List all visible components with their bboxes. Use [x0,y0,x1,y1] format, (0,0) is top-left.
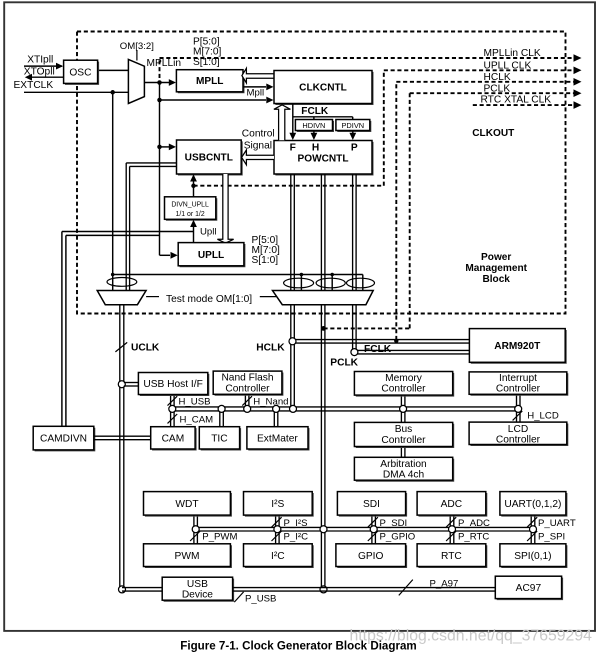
output arrow HCLK [574,78,582,86]
wire MPLLin to USBCNTL [160,146,170,148]
node MPLLin to USBCNTL tap [157,145,162,150]
svg-text:1/1 or 1/2: 1/1 or 1/2 [176,211,205,218]
svg-text:S[1:0]: S[1:0] [193,57,220,68]
block CAM [152,428,196,450]
node UCLK to USB device [119,586,126,593]
wire MPLLin CLK dashed route [159,58,161,78]
wire PDIVN to POWCNTL [352,131,354,134]
svg-text:Controller: Controller [496,384,541,395]
svg-text:Upll: Upll [200,226,217,237]
hollow arrow CLKCNTL to MPLL [242,68,274,83]
slash P_GPIO [368,531,378,541]
wire H column [320,174,322,291]
wire peripheral column 3 upper [371,515,373,527]
block AC97 [497,578,563,600]
wire PCLK dashed route [324,327,410,329]
svg-text:RTC XTAL CLK: RTC XTAL CLK [481,95,552,106]
wire MPLLin tap to CAMDIVN [66,234,160,236]
svg-text:XTOpll: XTOpll [24,67,55,78]
divider PDIVN [337,121,371,132]
svg-text:MPLLin: MPLLin [147,58,182,69]
wire peripheral column 5 lower [530,531,532,544]
svg-text:TIC: TIC [211,433,227,444]
svg-text:USB Host I/F: USB Host I/F [143,379,202,390]
wire PCLK column below mux [320,305,322,590]
node UCLK to USB host [118,381,125,388]
svg-text:H_Nand: H_Nand [253,396,288,407]
svg-text:Interrupt: Interrupt [499,373,537,384]
svg-text:P_ADC: P_ADC [458,518,490,529]
cpu ARM920T [471,330,566,363]
wire FCLK column below mux [352,305,354,353]
wire OM mux output MPLLin [144,82,169,84]
block ExtMater [248,428,309,450]
svg-text:FCLK: FCLK [301,106,329,117]
wire bus to LCDCtrl [516,411,518,422]
node bus HCLK column [290,405,297,412]
controller Interrupt [471,373,568,395]
block I2C [245,545,313,567]
node bus MemCtrl [400,405,407,412]
pll MPLL [178,71,244,93]
wire EXTCLK input [24,91,128,93]
svg-text:P_A97: P_A97 [430,579,459,590]
wire test clock line [113,274,363,276]
wire F column [290,174,292,291]
svg-text:DIVN_UPLL: DIVN_UPLL [171,202,209,209]
svg-text:H: H [312,142,319,153]
block SPI [501,545,567,567]
svg-text:P_SDI: P_SDI [380,518,408,529]
svg-text:P: P [351,142,358,153]
divider DIVN_UPLL [166,198,217,220]
block RTC [419,545,487,567]
wire peripheral column 5 upper [530,515,532,527]
block SDI [339,493,407,516]
svg-text:Memory: Memory [385,373,423,384]
node PCLK bus WDT [192,526,199,533]
block WDT [145,493,232,516]
slash P_PWM [190,531,200,541]
wire HCLK to ARM920T [293,339,470,341]
wire FCLK from CLKCNTL [292,104,294,134]
wire Mpll to CLKCNTL [243,86,266,88]
block ADC [419,493,487,516]
wire UPLL CLK dashed route [194,185,384,187]
mux OM[3:2] [128,59,144,103]
svg-text:I²C: I²C [271,551,285,562]
svg-text:HCLK: HCLK [256,342,285,353]
node bus TIC [218,405,225,412]
wire peripheral column 1 lower [193,531,195,544]
svg-text:UPLL CLK: UPLL CLK [484,61,532,72]
wire P column [352,174,354,291]
svg-text:Controller: Controller [381,435,426,446]
svg-text:RTC: RTC [441,551,462,562]
wire MemCtrl to bus [400,395,402,407]
svg-text:CLKOUT: CLKOUT [472,128,515,139]
svg-text:WDT: WDT [175,499,198,510]
label Test mode OM[1:0] [146,296,159,298]
wire peripheral column 2 upper [275,515,277,527]
block TIC [201,428,241,450]
wire UCLK from USBCNTL [126,162,176,164]
svg-text:PCLK: PCLK [484,83,511,94]
svg-text:HDIVN: HDIVN [302,121,325,130]
svg-text:Figure 7-1. Clock Generator Bl: Figure 7-1. Clock Generator Block Diagra… [180,640,416,653]
wire bus to BusCtrl [400,411,402,423]
wire USB Host IF to bus [170,395,172,407]
ellipse left test bundle [107,278,137,287]
oscillator OSC [65,62,99,85]
slash P_I2C [272,531,282,541]
wire UCLK rail [119,305,121,590]
svg-text:SDI: SDI [363,499,380,510]
slash H_USB [168,396,178,405]
svg-text:EXTCLK: EXTCLK [14,80,54,91]
slash P_SPI [527,531,537,541]
svg-text:P_I²C: P_I²C [284,532,309,543]
output arrow MPLLin CLK [574,54,582,62]
node PCLK bus ADC [449,526,456,533]
svg-text:P_RTC: P_RTC [458,532,489,543]
wire peripheral column 2 lower [275,531,277,544]
slash H_Nand [242,396,252,405]
block Arbitration DMA [356,459,454,482]
node EXTCLK junction [110,90,115,95]
wire bus to ExtMater [273,411,275,427]
node test tap 1 [300,273,304,277]
svg-text:AC97: AC97 [516,583,542,594]
divider CAMDIVN [35,428,95,451]
svg-text:Arbitration: Arbitration [380,459,426,470]
block I2S [245,493,313,516]
wire MPLLin to CLKCNTL [160,99,267,101]
wire XTIpll input [24,65,62,67]
wire peripheral column 1 upper [193,515,195,527]
controller LCD [471,424,568,446]
wire RTC XTAL CLK dashed route [473,104,575,106]
wire NandFlash to bus [244,394,246,407]
pll UPLL [180,244,245,267]
slash P_A97 [399,580,413,596]
svg-text:ExtMater: ExtMater [257,433,298,444]
controller USBCNTL [178,141,242,175]
wire CAMDIVN to CAM [94,435,151,437]
controller Bus [356,424,454,448]
svg-text:Mpll: Mpll [247,87,265,98]
wire peripheral column 3 lower [371,531,373,544]
wire bus to CAM [170,411,172,427]
wire BusCtrl to Arbitration [400,447,402,458]
svg-text:Controller: Controller [225,383,270,394]
node HCLK branch [289,338,296,345]
wire peripheral column 4 lower [449,531,451,544]
wire XTOpll output [32,76,64,78]
wire peripheral column 4 upper [449,515,451,527]
wire bus to TIC [219,411,221,427]
svg-text:P_SPI: P_SPI [538,532,565,543]
ellipse right test bundle 2 [316,278,345,288]
wire OSC to OM mux [98,69,129,71]
block GPIO [337,545,406,567]
svg-text:PWM: PWM [175,551,200,562]
svg-text:Bus: Bus [395,424,413,435]
wire IntCtrl to bus [516,394,518,407]
ellipse right test bundle 3 [347,278,375,288]
svg-text:POWCNTL: POWCNTL [297,154,348,165]
svg-text:LCD: LCD [508,424,528,435]
svg-text:Control: Control [242,129,275,140]
mux left test mode [97,291,146,305]
wire FCLK to ARM920T [354,349,469,351]
svg-text:PDIVN: PDIVN [342,121,365,130]
controller USB Host IF [140,374,209,396]
output arrow PCLK [574,89,582,97]
slash H_LCD [513,411,523,420]
svg-text:P_USB: P_USB [245,594,276,605]
controller POWCNTL [275,142,373,175]
node PCLK bus spine [320,526,327,533]
controller Nand Flash [215,373,283,396]
hollow arrow POWCNTL to CLKCNTL [274,105,291,140]
node FCLK branch [351,349,358,356]
node bus USB host [169,405,176,412]
svg-text:Signal: Signal [244,141,272,152]
svg-text:Controller: Controller [381,384,426,395]
svg-text:Test mode OM[1:0]: Test mode OM[1:0] [166,294,252,305]
svg-text:HCLK: HCLK [484,72,511,83]
slash P_SDI [368,517,378,527]
node bus ExtMater [273,405,280,412]
controller CLKCNTL [275,72,373,105]
svg-text:Nand Flash: Nand Flash [221,373,273,384]
slash P_UART [527,517,537,527]
node test line start [111,273,115,277]
node PCLK bus I2S [274,526,281,533]
svg-text:MPLL: MPLL [196,76,223,87]
svg-text:P_I²S: P_I²S [284,518,308,529]
output arrow RTC XTAL CLK [574,101,582,109]
svg-text:F: F [290,142,296,153]
slash H_CAM [168,414,178,423]
node bus IntCtrl [515,405,522,412]
ellipse right test bundle 1 [284,278,314,288]
divider HDIVN [297,121,334,132]
svg-text:Management: Management [465,263,527,274]
svg-text:Power: Power [481,252,511,263]
slash UCLK [115,342,127,352]
svg-text:UCLK: UCLK [131,342,160,353]
node MPLLin to CLKCNTL tap [157,98,162,103]
wire Upll to DIVN_UPLL [193,226,195,243]
svg-text:USB: USB [187,579,208,590]
svg-text:S[1:0]: S[1:0] [252,255,279,266]
bus PCLK [196,526,533,528]
node UPLL CLK tap [191,184,196,189]
svg-text:USBCNTL: USBCNTL [185,152,233,163]
svg-text:XTIpll: XTIpll [27,54,53,65]
node PCLK to AC97 line [320,586,327,593]
wire Upll tap to CAMDIVN [62,231,194,233]
svg-text:CAM: CAM [162,433,185,444]
label OM[3:2] [136,51,138,61]
svg-text:GPIO: GPIO [358,551,384,562]
node PCLK bus SDI [370,526,377,533]
svg-text:SPI(0,1): SPI(0,1) [514,551,551,562]
wire EXTCLK down to test mux [112,92,114,290]
svg-text:Device: Device [182,589,213,600]
node bus Nand [244,405,251,412]
controller Memory [356,373,454,396]
svg-text:PCLK: PCLK [330,358,358,369]
svg-text:H_LCD: H_LCD [527,410,559,421]
node PCLK bus UART [530,526,537,533]
wire UCLK to USB Host IF [124,382,139,384]
slash P_I2S [272,517,282,527]
svg-text:OM[3:2]: OM[3:2] [120,41,154,52]
svg-text:DMA 4ch: DMA 4ch [383,470,424,481]
svg-text:H_CAM: H_CAM [180,415,214,426]
wire USBCNTL to DIVN_UPLL rail [193,181,195,197]
node test tap 2 [330,273,334,277]
bus HCLK [172,406,518,408]
block USB Device [164,579,234,602]
svg-text:P_PWM: P_PWM [202,532,237,543]
svg-text:OSC: OSC [69,67,91,78]
clock generator module dashed boundary [77,32,566,314]
block PWM [145,545,232,567]
svg-text:CAMDIVN: CAMDIVN [40,434,87,445]
svg-text:ARM920T: ARM920T [494,341,541,352]
svg-text:Block: Block [482,274,510,285]
svg-text:P_UART: P_UART [538,518,576,529]
svg-text:UPLL: UPLL [198,250,224,261]
hollow arrow POWCNTL to USBCNTL [242,150,274,165]
node PCLK dashed tap [321,326,326,331]
output arrow UPLL CLK [574,67,582,75]
svg-text:Controller: Controller [496,435,541,446]
node MPLLin [157,80,162,85]
hollow arrow USBCNTL to UPLL [217,174,233,243]
svg-text:M[7:0]: M[7:0] [193,47,221,58]
wire HCLK dashed route [395,82,397,340]
svg-text:ADC: ADC [441,499,463,510]
svg-text:P_GPIO: P_GPIO [380,532,416,543]
wire UCLK to USB Device [122,587,162,589]
wire HDIVN to POWCNTL [313,131,315,134]
wire MPLLin vertical rail [159,83,161,256]
slash P_ADC [446,517,456,527]
slash P_RTC [446,531,456,541]
wire FCLK branch to dividers [293,116,353,118]
node HCLK dashed tap [394,339,398,343]
svg-text:FCLK: FCLK [364,344,392,355]
svg-text:CLKCNTL: CLKCNTL [299,82,347,93]
svg-text:I²S: I²S [271,499,284,510]
block UART [501,493,567,516]
slash P_USB [234,592,243,602]
mux right test mode [273,291,374,305]
wire HCLK column below mux [290,305,292,409]
wire USB Device to AC97 line [233,587,496,589]
svg-text:MPLLin CLK: MPLLin CLK [484,48,541,59]
svg-text:UART(0,1,2): UART(0,1,2) [504,499,561,510]
svg-text:H_USB: H_USB [179,396,211,407]
